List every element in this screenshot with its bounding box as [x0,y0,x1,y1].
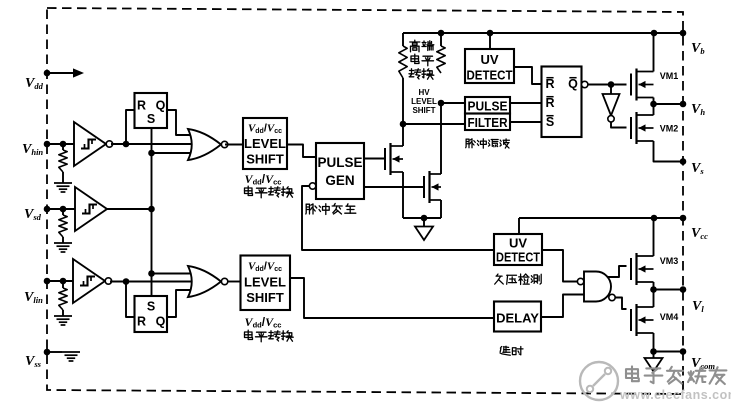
wire VM1 drain to rail [653,33,655,72]
wire PULSE GEN to M1 gate [364,158,385,160]
wire VM3 drain to Vcc rail [653,218,655,256]
svg-text:S: S [147,300,155,314]
label qianya-jiance (undervoltage detect) [495,274,542,285]
svg-text:VM1: VM1 [660,71,679,81]
block FILTER box [465,114,510,131]
node Vl (VM3 source / VM4 drain) [650,282,683,307]
wire VM4 source to Vcom [650,333,683,355]
wire U2 output to S-line node [107,208,152,210]
bubble input on PULSE GEN lower left [309,183,315,189]
wire M1 drain up to R1 [400,121,407,146]
wire G3 output LS2 [225,281,241,283]
driver gate G4 [577,272,615,302]
wire M1 source down to common [402,172,404,218]
svg-text:SHIFT: SHIFT [412,106,435,115]
svg-text:Q: Q [156,315,166,329]
pin Vsd [24,206,75,222]
svg-text:HV: HV [418,88,430,97]
transistor VM1 (high side output) [631,69,678,101]
wire latch L1 R input [126,110,135,144]
svg-text:DETECT: DETECT [467,68,513,83]
svg-text:VM4: VM4 [660,312,679,322]
node Vh (VM1 source / VM2 drain) [650,98,683,116]
S-line vertical (SD net) [148,128,155,296]
svg-text:S: S [546,115,554,129]
label dianping-zhuanhuan below LS1 (level shift) [245,186,294,198]
wire L2 Q to VM1 gate [588,81,627,88]
wire U3 output to NOR G3 [110,278,196,285]
wire R2 node to PULSE input [441,102,465,104]
svg-text:LEVEL: LEVEL [411,97,437,106]
pin Vcom [680,348,716,371]
watermark url www.elecfans.com [619,388,731,402]
wire G4 to VM3 gate [608,266,627,277]
pin Vlin [24,278,73,305]
wire UV DETECT to latch L2 R input [514,67,542,84]
resistor R1 (HV level shift) [399,33,407,124]
svg-text:UV: UV [480,52,498,67]
wire U4 out to VM2 gate [611,122,627,128]
pin Vb [680,30,705,56]
transistor VM4 (low side output) [631,304,678,336]
wire PULSE out to latch L2 [510,102,542,104]
RS latch L3 [135,296,168,332]
wire R1 node to FILTER input [403,123,465,125]
svg-text:R: R [137,99,146,113]
pin Vhin [22,141,74,157]
resistor R2 (HV level shift) [437,33,445,73]
NOR gate G3 [188,266,228,297]
wire LS1 to PULSE GEN [287,145,316,158]
block UV DETECT (high side) [465,49,514,83]
label yanshi (delay) [500,346,523,355]
schmitt inverter U3 (LIN) [73,259,112,303]
block PULSE GEN [316,143,364,199]
watermark text dianzifashaoyou (elecfans) [626,366,726,384]
wire G4 bubble out to VM4 gate [615,298,626,310]
pin Vh [680,101,706,117]
wire VM2 source to Vs [654,141,684,162]
wire S-line to NOR G3 top input [152,273,199,275]
pin Vss [25,349,62,369]
wire latch L1 Q to NOR G1 top input [167,110,198,135]
svg-text:UV: UV [509,236,527,251]
label HV LEVEL SHIFT [411,88,437,115]
wire M2 drain up to R2 [438,100,445,174]
ground (Vss) [62,352,80,361]
wire UV DETECT 2 to driver gate G4 [542,250,577,282]
pin Vl [680,286,705,314]
svg-text:www.elecfans.com: www.elecfans.com [619,388,731,402]
wire FILTER out to latch L2 [510,121,542,123]
ground (Vlin pulldown) [54,316,72,325]
ground (Vcom) [645,352,663,372]
svg-text:VM2: VM2 [660,124,679,134]
svg-text:LEVEL: LEVEL [244,275,286,290]
wire S-line to NOR G1 bottom input [152,152,199,154]
ground (Vhin pulldown) [54,183,72,192]
transistor M2 (level shift) [424,171,441,203]
wire PULSE GEN to M2 gate [364,186,424,188]
Vcc rail (low side) [519,215,683,234]
block UV DETECT 2 (low side) [494,234,542,265]
schmitt buffer U2 (SD) [75,187,107,231]
transistor VM2 (high side output) [631,112,678,144]
pin Vdd [25,68,84,91]
svg-text:R: R [545,96,554,110]
NOR gate G1 [188,129,228,160]
resistor R-lin pulldown [59,281,67,316]
latch L2 (RR/S latch) [542,67,582,138]
resistor R-hin pulldown [59,144,67,183]
svg-text:LEVEL: LEVEL [244,136,286,151]
svg-text:SHIFT: SHIFT [246,290,284,305]
bubble latch L2 Q output [582,81,588,87]
block LS2 Vdd/Vcc LEVEL SHIFT [241,256,291,311]
label Vdd/Vcc below LS1 [245,172,282,187]
pin Vs [680,158,705,176]
label gaoduan-dianping-zhuanhuan (high side level shift) [409,40,434,79]
wire rail to UV DETECT [489,33,491,49]
svg-text:S: S [147,112,155,126]
wire M2 source down to common [440,200,442,218]
label maichong-lvbo (pulse filter) [466,139,510,148]
svg-text:DELAY: DELAY [496,311,539,326]
block PULSE box [465,97,510,114]
schmitt inverter U1 (HIN) [74,122,113,166]
resistor R-sd pulldown [59,209,67,243]
wire G1 to LEVEL SHIFT LS1 [225,144,243,146]
label Vdd/Vcc below LS2 [245,315,282,330]
Vb top rail [403,30,683,37]
pin Vcc [680,215,708,241]
svg-text:GEN: GEN [325,173,354,188]
wire PULSE GEN bubble to UV DETECT 2 input [302,186,494,250]
label dianping-zhuanhuan below LS2 (level shift) [245,330,294,342]
svg-text:VM3: VM3 [660,256,679,266]
label maichong-fasheng below PULSE GEN (pulse generation) [306,204,356,215]
watermark elecfans logo [580,362,618,400]
ground (level shift common) [415,218,433,240]
svg-text:R: R [545,77,554,91]
wire U1 output to NOR G1 [111,141,196,148]
inverter U4 (drives VM2) [603,85,620,123]
svg-text:PULSE: PULSE [468,99,508,114]
block LS1 Vdd/Vcc LEVEL SHIFT [243,118,287,169]
wire to latch L3 R input [126,282,135,318]
svg-text:Q: Q [156,99,166,113]
ground (Vsd pulldown) [54,243,72,252]
transistor M1 (level shift) [385,143,403,175]
transistor VM3 (low side output) [631,253,678,285]
svg-text:FILTER: FILTER [468,115,509,130]
svg-text:SHIFT: SHIFT [246,152,284,167]
wire LS2 to DELAY [290,278,494,318]
svg-text:DETECT: DETECT [496,250,540,265]
wire DELAY to driver gate G4 [541,295,584,318]
svg-text:Q: Q [568,77,578,91]
block DELAY [494,302,541,332]
wire latch L3 Q to NOR G3 bottom input [167,290,198,317]
svg-text:R: R [137,315,146,329]
svg-text:PULSE: PULSE [317,155,362,170]
wire M1/M2 source rail [403,215,441,222]
RS latch L1 [135,93,168,128]
